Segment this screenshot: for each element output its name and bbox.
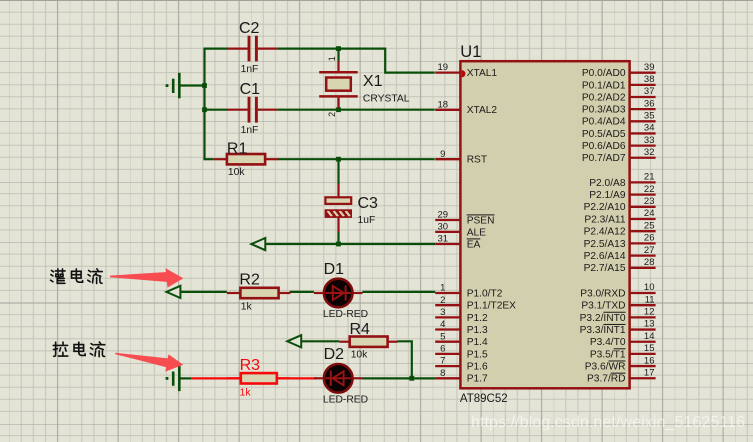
svg-text:36: 36 xyxy=(644,98,655,109)
svg-text:10: 10 xyxy=(644,282,655,293)
svg-text:8: 8 xyxy=(440,368,445,379)
svg-text:1nF: 1nF xyxy=(241,64,259,75)
svg-text:P3.3/INT1: P3.3/INT1 xyxy=(580,325,626,336)
svg-text:LED-RED: LED-RED xyxy=(323,309,368,320)
svg-text:P3.5/T1: P3.5/T1 xyxy=(590,349,626,360)
svg-text:P2.7/A15: P2.7/A15 xyxy=(584,263,626,274)
svg-text:P1.1/T2EX: P1.1/T2EX xyxy=(467,301,516,312)
svg-text:P2.6/A14: P2.6/A14 xyxy=(584,251,626,262)
svg-text:1uF: 1uF xyxy=(358,215,376,226)
svg-text:6: 6 xyxy=(440,344,445,355)
svg-text:P2.3/A11: P2.3/A11 xyxy=(584,214,625,225)
svg-text:1nF: 1nF xyxy=(241,125,259,136)
svg-text:P2.4/A12: P2.4/A12 xyxy=(584,227,626,238)
svg-text:10k: 10k xyxy=(228,167,245,178)
svg-text:P3.0/RXD: P3.0/RXD xyxy=(580,288,625,299)
svg-text:U1: U1 xyxy=(460,43,481,61)
svg-text:P0.3/AD3: P0.3/AD3 xyxy=(582,105,626,116)
svg-text:1: 1 xyxy=(327,56,337,61)
svg-text:2: 2 xyxy=(440,295,445,306)
svg-text:4: 4 xyxy=(440,319,445,330)
svg-text:ALE: ALE xyxy=(467,227,486,238)
svg-text:R1: R1 xyxy=(227,141,248,158)
svg-text:11: 11 xyxy=(645,294,655,305)
svg-text:P1.5: P1.5 xyxy=(467,349,488,360)
svg-text:P1.6: P1.6 xyxy=(467,362,488,373)
svg-text:P0.5/AD5: P0.5/AD5 xyxy=(582,129,626,140)
svg-text:LED-RED: LED-RED xyxy=(323,395,368,406)
svg-text:P1.7: P1.7 xyxy=(467,374,488,385)
svg-text:30: 30 xyxy=(438,222,449,233)
svg-text:16: 16 xyxy=(644,355,655,366)
svg-text:37: 37 xyxy=(644,86,655,97)
svg-text:26: 26 xyxy=(644,233,655,244)
svg-text:P1.0/T2: P1.0/T2 xyxy=(467,288,503,299)
svg-text:34: 34 xyxy=(644,123,655,134)
svg-text:P3.2/INT0: P3.2/INT0 xyxy=(580,313,626,324)
svg-text:22: 22 xyxy=(644,184,655,195)
svg-text:P0.7/AD7: P0.7/AD7 xyxy=(582,153,626,164)
svg-text:P0.6/AD6: P0.6/AD6 xyxy=(582,141,626,152)
svg-text:29: 29 xyxy=(438,210,449,221)
svg-text:D2: D2 xyxy=(324,346,345,363)
svg-text:10k: 10k xyxy=(351,350,368,361)
svg-text:P1.4: P1.4 xyxy=(467,337,488,348)
svg-text:32: 32 xyxy=(644,147,655,158)
svg-text:P2.0/A8: P2.0/A8 xyxy=(589,178,626,189)
svg-text:13: 13 xyxy=(644,319,655,330)
svg-text:XTAL1: XTAL1 xyxy=(467,68,498,79)
svg-text:7: 7 xyxy=(440,356,445,367)
svg-text:1: 1 xyxy=(440,283,445,294)
svg-text:15: 15 xyxy=(644,343,655,354)
svg-text:18: 18 xyxy=(438,99,449,110)
svg-text:P3.4/T0: P3.4/T0 xyxy=(590,337,626,348)
svg-text:33: 33 xyxy=(644,135,655,146)
svg-text:P0.0/AD0: P0.0/AD0 xyxy=(582,68,626,79)
svg-text:35: 35 xyxy=(644,111,655,122)
svg-text:XTAL2: XTAL2 xyxy=(467,105,498,116)
svg-text:X1: X1 xyxy=(363,73,383,90)
svg-text:D1: D1 xyxy=(324,261,345,278)
svg-text:1k: 1k xyxy=(241,302,253,313)
svg-text:23: 23 xyxy=(644,196,655,207)
svg-text:P3.1/TXD: P3.1/TXD xyxy=(581,301,625,312)
svg-text:P0.1/AD1: P0.1/AD1 xyxy=(582,80,626,91)
svg-text:38: 38 xyxy=(644,74,655,85)
svg-text:17: 17 xyxy=(644,367,655,378)
svg-text:21: 21 xyxy=(644,172,655,183)
svg-text:AT89C52: AT89C52 xyxy=(460,393,508,405)
svg-text:C1: C1 xyxy=(240,81,261,98)
svg-text:C2: C2 xyxy=(239,20,260,37)
svg-text:C3: C3 xyxy=(358,195,379,212)
svg-text:R2: R2 xyxy=(239,271,260,288)
svg-text:25: 25 xyxy=(644,220,655,231)
svg-text:P3.6/WR: P3.6/WR xyxy=(585,361,626,372)
svg-text:P0.4/AD4: P0.4/AD4 xyxy=(582,117,626,128)
svg-text:27: 27 xyxy=(644,245,655,256)
svg-text:1k: 1k xyxy=(240,388,252,399)
svg-text:39: 39 xyxy=(644,62,655,73)
svg-text:14: 14 xyxy=(644,331,655,342)
svg-text:P3.7/RD: P3.7/RD xyxy=(587,374,626,385)
svg-text:P2.1/A9: P2.1/A9 xyxy=(589,190,626,201)
svg-text:28: 28 xyxy=(644,257,655,268)
svg-text:31: 31 xyxy=(438,234,449,245)
svg-text:EA: EA xyxy=(467,239,481,250)
svg-text:R4: R4 xyxy=(350,321,371,338)
svg-text:12: 12 xyxy=(644,307,655,318)
svg-text:P2.5/A13: P2.5/A13 xyxy=(584,239,626,250)
svg-text:RST: RST xyxy=(467,155,487,166)
svg-text:5: 5 xyxy=(440,331,445,342)
svg-text:P1.3: P1.3 xyxy=(467,325,488,336)
svg-text:PSEN: PSEN xyxy=(467,215,495,226)
svg-text:R3: R3 xyxy=(240,357,261,374)
svg-text:https://blog.csdn.net/weixin_5: https://blog.csdn.net/weixin_51625116 xyxy=(471,414,745,431)
svg-text:P2.2/A10: P2.2/A10 xyxy=(584,202,626,213)
svg-text:19: 19 xyxy=(438,62,449,73)
svg-text:P0.2/AD2: P0.2/AD2 xyxy=(582,92,626,103)
svg-text:24: 24 xyxy=(644,208,655,219)
svg-text:9: 9 xyxy=(440,149,445,160)
svg-text:CRYSTAL: CRYSTAL xyxy=(363,93,410,104)
svg-text:2: 2 xyxy=(327,112,337,117)
svg-text:P1.2: P1.2 xyxy=(467,313,488,324)
svg-text:3: 3 xyxy=(440,307,445,318)
